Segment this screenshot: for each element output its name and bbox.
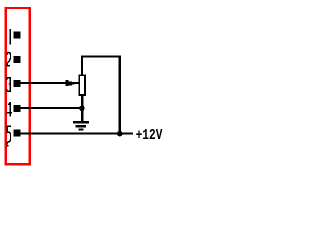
pin 3 number label: [7, 78, 10, 92]
pin 4 pad: [14, 105, 21, 112]
pin 5 number label: [7, 126, 11, 145]
wire pin5 to +12V rail: [21, 132, 134, 134]
pin 1 pad: [14, 31, 21, 38]
potentiometer RP1 body: [79, 75, 85, 95]
pin 1 number label: [9, 29, 11, 45]
wire pin3 to potentiometer wiper: [21, 82, 79, 84]
ground symbol: [73, 121, 89, 131]
pin 3 pad: [14, 80, 21, 87]
wire top horizontal rail: [81, 55, 121, 57]
junction +12V node: [117, 131, 123, 137]
potentiometer RP1 wiper arrow: [66, 80, 75, 86]
wire potentiometer top to rail corner: [81, 57, 83, 75]
junction pin4/potentiometer/ground: [79, 106, 85, 112]
pin 2 number label: [7, 52, 10, 65]
pin 4 number label: [7, 102, 12, 117]
connector J1 (5-pin header, red outline): [6, 8, 30, 164]
svg-text:+12V: +12V: [136, 128, 163, 144]
pin 5 pad: [14, 130, 21, 137]
wire pin4 to ground junction: [21, 107, 84, 109]
wire potentiometer bottom to ground: [81, 96, 83, 122]
pin 2 pad: [14, 56, 21, 63]
wire right vertical rail to +12V node: [119, 55, 121, 133]
